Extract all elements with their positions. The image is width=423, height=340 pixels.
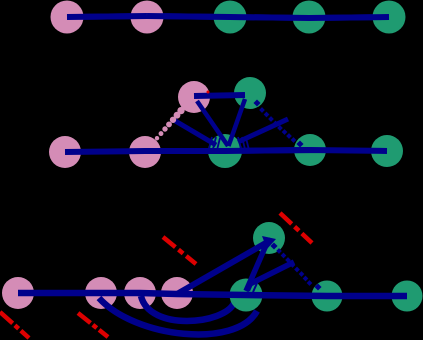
node row3-F elevated green xyxy=(253,222,285,254)
node row1-1 pink xyxy=(51,1,84,34)
node row3-A pink xyxy=(2,277,34,309)
wire row1 segment over nodes xyxy=(67,16,147,17)
arrowhead feathers at E top-right xyxy=(245,280,258,292)
arrowhead at F end of D-F edge xyxy=(262,236,276,249)
wire row3 baseline xyxy=(18,293,407,296)
red dashed mark R3 above C-D xyxy=(163,237,196,264)
dot navy diamond on G xyxy=(314,283,321,290)
node row3-G green xyxy=(312,281,343,312)
node row1-4 green xyxy=(293,1,326,34)
node row2-1 pink xyxy=(49,136,81,168)
node row1-3 green xyxy=(214,1,247,34)
node row2-5 green xyxy=(371,135,403,167)
edge top bar elevated pink to elevated green xyxy=(194,95,245,96)
dot navy diamond on row2-4 green xyxy=(296,140,303,147)
wire row2 baseline over center node xyxy=(145,150,310,151)
curve C to E under baseline xyxy=(141,296,234,321)
dotted pink arc row2-2 to elevated pink xyxy=(155,102,189,140)
edge fan left from center up-left xyxy=(172,119,216,145)
node row3-E green xyxy=(230,279,263,312)
node row2-3 green center xyxy=(208,134,242,168)
wire row2 baseline xyxy=(65,150,387,152)
red dashed mark R1 far left bottom xyxy=(0,312,29,338)
node row3-C pink xyxy=(124,277,156,309)
dot navy diamond inside F xyxy=(270,242,277,249)
edge elevated pink V-branch down to center xyxy=(197,101,228,146)
node row3-D pink xyxy=(161,277,193,309)
node row1-2 pink xyxy=(131,1,164,34)
dotted navy chain elevated green to row2-4 xyxy=(259,107,296,143)
red dashed mark R4 above F xyxy=(280,213,312,243)
node row2-4 green xyxy=(294,134,326,166)
node row2-2 pink xyxy=(129,136,161,168)
node row3-B pink xyxy=(85,277,117,309)
edge E up-right to chain xyxy=(250,262,294,284)
wire row1 baseline xyxy=(67,16,389,18)
arrowhead feathers left at center node xyxy=(209,137,220,150)
edge elevated green V-branch down to center xyxy=(229,99,246,146)
curve B to G under baseline xyxy=(99,298,257,334)
dot small red on top bar xyxy=(207,91,210,94)
node row2 elevated green xyxy=(234,77,266,109)
red dashed mark R2 below B xyxy=(78,313,108,337)
edge E to F steep xyxy=(246,243,267,291)
dotted navy chain F to G xyxy=(276,248,312,286)
arrowhead feathers right at center node xyxy=(238,137,249,150)
edge fan right from center up-right xyxy=(238,119,288,142)
node row3-H green xyxy=(392,281,423,312)
node row1-5 green xyxy=(373,1,406,34)
node row2 elevated pink xyxy=(178,81,210,113)
edge D to F with arrow xyxy=(177,240,271,294)
dot navy diamond inside elevated green xyxy=(253,99,260,106)
wire row1 re-draw through greens xyxy=(147,16,389,18)
